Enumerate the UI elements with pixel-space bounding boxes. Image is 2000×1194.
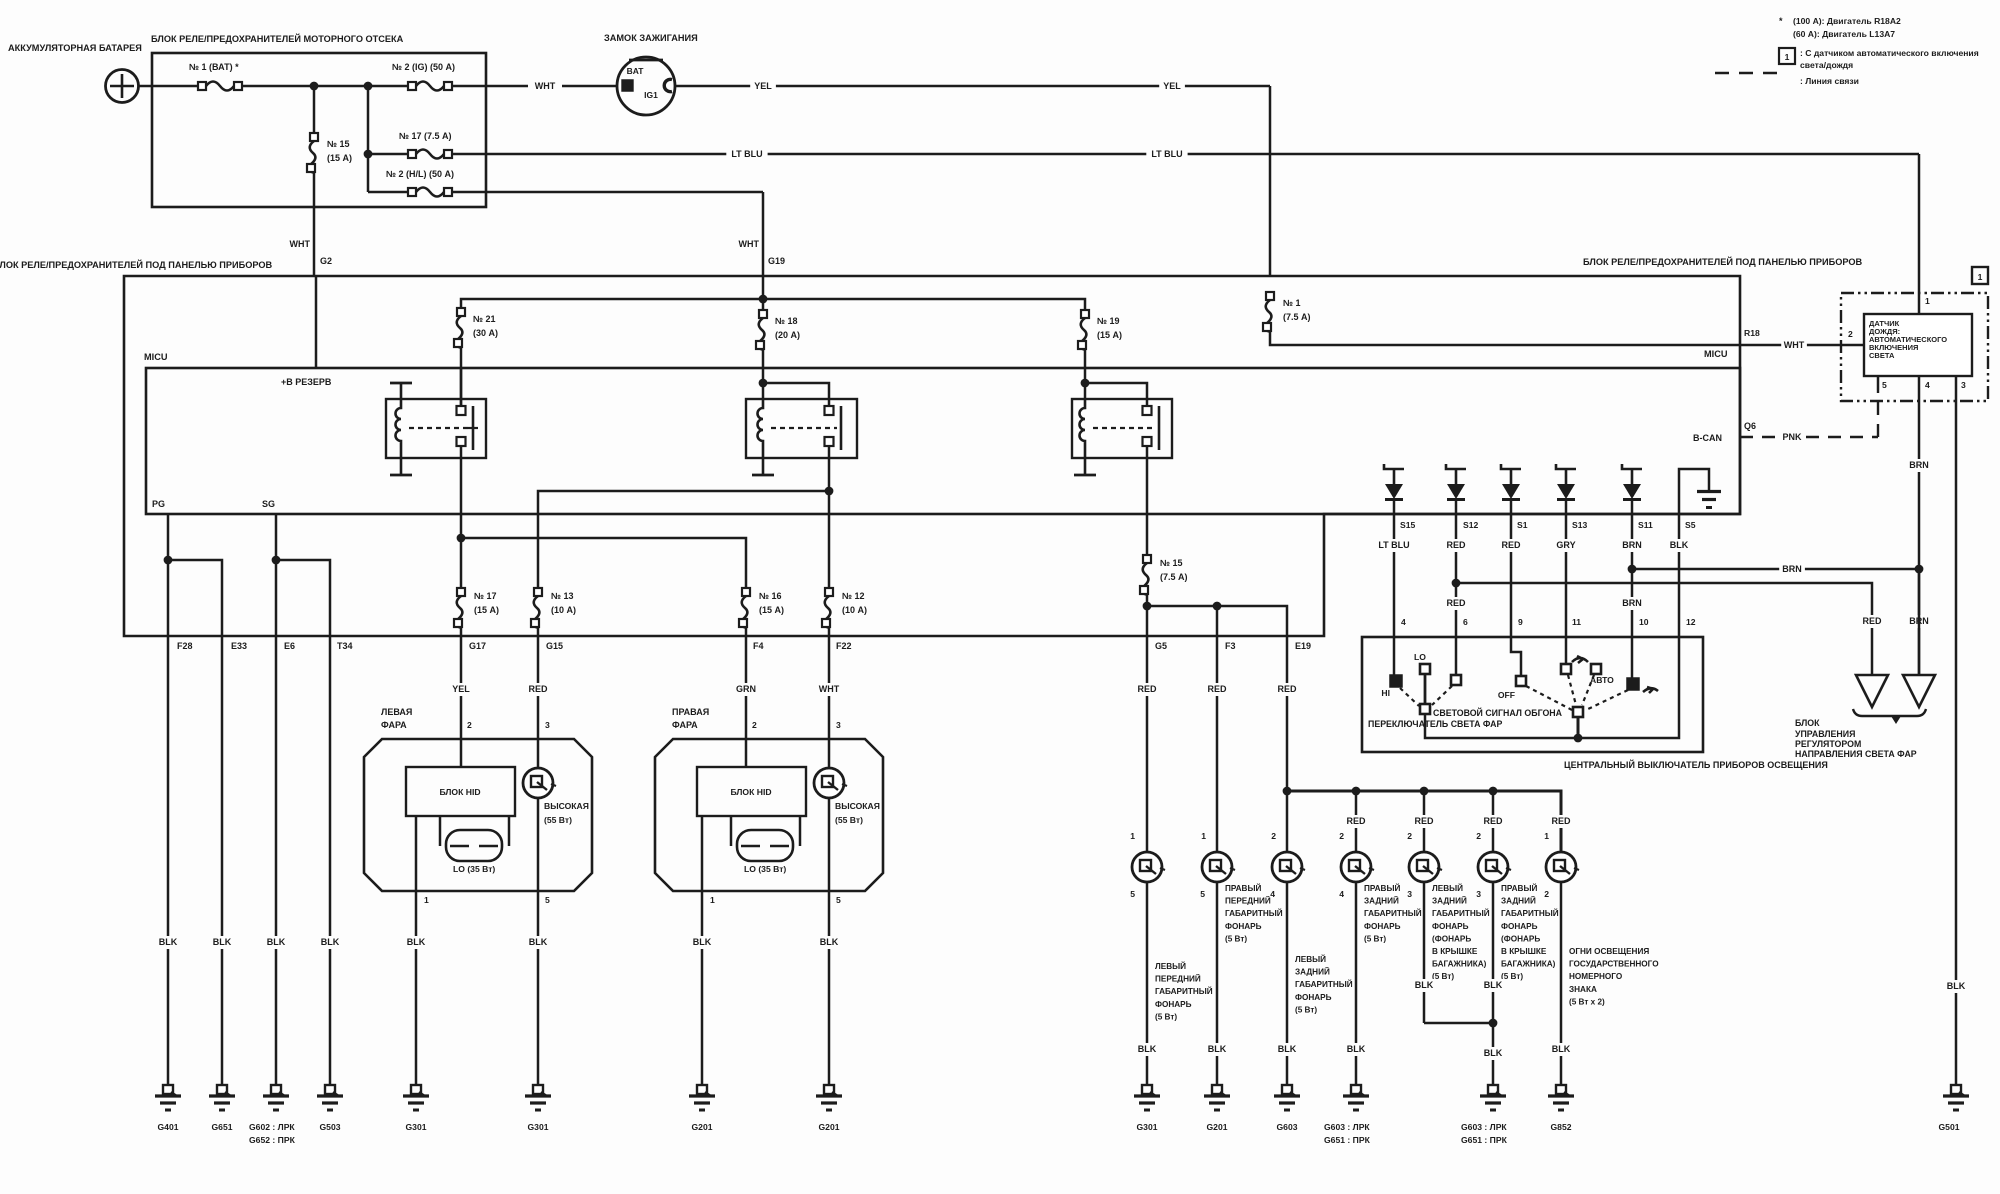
svg-text:1: 1 xyxy=(1785,52,1790,62)
svg-text:G651: G651 xyxy=(211,1122,232,1132)
svg-text:RED: RED xyxy=(1277,684,1297,694)
svg-text:ГАБАРИТНЫЙ: ГАБАРИТНЫЙ xyxy=(1155,985,1213,996)
svg-text:12: 12 xyxy=(1686,617,1696,627)
relay 2 xyxy=(746,399,857,475)
svg-text:E6: E6 xyxy=(284,641,295,651)
left headlight housing xyxy=(364,739,592,891)
svg-text:ГАБАРИТНЫЙ: ГАБАРИТНЫЙ xyxy=(1501,907,1559,918)
left pin1 wire xyxy=(415,816,418,1085)
switch HI contact xyxy=(1393,637,1396,675)
MICU box xyxy=(146,368,1740,514)
engine relay/fuse box xyxy=(152,53,486,207)
svg-text:BRN: BRN xyxy=(1782,564,1802,574)
svg-text:БАГАЖНИКА): БАГАЖНИКА) xyxy=(1501,960,1556,969)
svg-text:ФОНАРЬ: ФОНАРЬ xyxy=(1501,922,1538,931)
svg-text:G852: G852 xyxy=(1550,1122,1571,1132)
svg-text:S13: S13 xyxy=(1572,520,1588,530)
ignition switch xyxy=(617,57,675,115)
svg-text:*: * xyxy=(1779,16,1783,26)
svg-text:(5 Вт): (5 Вт) xyxy=(1432,972,1454,981)
svg-text:WHT: WHT xyxy=(739,239,760,249)
svg-text:(5 Вт): (5 Вт) xyxy=(1295,1005,1317,1014)
wire battery to fuse box xyxy=(139,85,199,88)
svg-text:1: 1 xyxy=(1544,831,1549,841)
svg-text:S1: S1 xyxy=(1517,520,1528,530)
svg-text:БЛОК РЕЛЕ/ПРЕДОХРАНИТЕЛЕЙ МОТО: БЛОК РЕЛЕ/ПРЕДОХРАНИТЕЛЕЙ МОТОРНОГО ОТСЕ… xyxy=(151,33,404,44)
switch pole contact xyxy=(1573,707,1583,717)
rain sensor dash-dot box xyxy=(1841,293,1988,401)
svg-text:(5 Вт): (5 Вт) xyxy=(1364,934,1386,943)
node F3 branch xyxy=(1213,602,1222,611)
svg-text:АККУМУЛЯТОРНАЯ БАТАРЕЯ: АККУМУЛЯТОРНАЯ БАТАРЕЯ xyxy=(8,43,142,53)
svg-text:IG1: IG1 xyxy=(644,90,658,100)
svg-text:ПЕРЕКЛЮЧАТЕЛЬ СВЕТА ФАР: ПЕРЕКЛЮЧАТЕЛЬ СВЕТА ФАР xyxy=(1368,719,1503,729)
svg-text:ПРАВЫЙ: ПРАВЫЙ xyxy=(1501,882,1537,893)
svg-text:ФАРА: ФАРА xyxy=(381,720,407,730)
svg-text:ЛЕВАЯ: ЛЕВАЯ xyxy=(381,707,412,717)
branch to fuse16 xyxy=(461,538,746,588)
svg-text:ЗАДНИЙ: ЗАДНИЙ xyxy=(1295,966,1330,977)
rain sensor box xyxy=(1864,314,1972,376)
svg-text:№ 12: № 12 xyxy=(842,591,865,601)
svg-text:БЛОК РЕЛЕ/ПРЕДОХРАНИТЕЛЕЙ ПОД: БЛОК РЕЛЕ/ПРЕДОХРАНИТЕЛЕЙ ПОД ПАНЕЛЬЮ ПР… xyxy=(0,259,273,270)
svg-text:G603: G603 xyxy=(1276,1122,1297,1132)
svg-text:RED: RED xyxy=(1446,540,1466,550)
under-dash relay/fuse box outline xyxy=(124,276,1740,636)
ground column G602 : ЛРК xyxy=(275,636,278,1085)
svg-text:ЛЕВЫЙ: ЛЕВЫЙ xyxy=(1432,882,1463,893)
wire LT BLU long xyxy=(452,153,1919,156)
svg-text:1: 1 xyxy=(710,895,715,905)
svg-text:G301: G301 xyxy=(405,1122,426,1132)
svg-text:WHT: WHT xyxy=(535,81,556,91)
svg-text:BLK: BLK xyxy=(1552,1044,1571,1054)
svg-text:LO (35 Вт): LO (35 Вт) xyxy=(744,864,786,874)
svg-text:№ 13: № 13 xyxy=(551,591,574,601)
branch T34 xyxy=(276,560,330,636)
svg-text:G301: G301 xyxy=(527,1122,548,1132)
svg-text:(5 Вт х 2): (5 Вт х 2) xyxy=(1569,997,1605,1006)
right low beam feed xyxy=(745,636,748,767)
fuse No19 15A xyxy=(1078,310,1122,350)
bulb at x1356 xyxy=(1341,852,1374,882)
svg-text:G652 : ПРК: G652 : ПРК xyxy=(249,1135,296,1145)
switch LO contact xyxy=(1420,664,1430,674)
bulb at x1493 xyxy=(1478,852,1511,882)
svg-text:(20 А): (20 А) xyxy=(775,330,800,340)
dashed HI to flash xyxy=(1400,688,1419,706)
svg-text:OFF: OFF xyxy=(1498,690,1515,700)
wire S15 column xyxy=(1393,514,1396,637)
svg-text:RED: RED xyxy=(1501,540,1521,550)
fuse No16 15A xyxy=(739,588,784,628)
parking bus xyxy=(1287,791,1561,852)
svg-text:ФОНАРЬ: ФОНАРЬ xyxy=(1225,922,1262,931)
diode S1 xyxy=(1501,464,1521,500)
diode S11 xyxy=(1622,464,1642,500)
svg-text:(15 А): (15 А) xyxy=(759,605,784,615)
svg-text:BLK: BLK xyxy=(1415,980,1434,990)
parking feed columns G5 F3 E19 xyxy=(1146,636,1149,852)
svg-text:2: 2 xyxy=(467,720,472,730)
sensor pin5 stub xyxy=(1877,376,1880,390)
svg-text:S11: S11 xyxy=(1638,520,1653,530)
node relay3 feed xyxy=(1081,379,1090,388)
light switch box xyxy=(1362,637,1703,752)
svg-text:ЗАДНИЙ: ЗАДНИЙ xyxy=(1501,895,1536,906)
switch pin11 contact xyxy=(1565,637,1568,663)
svg-text:(15 А): (15 А) xyxy=(1097,330,1122,340)
svg-text:G301: G301 xyxy=(1136,1122,1157,1132)
svg-text:ФОНАРЬ: ФОНАРЬ xyxy=(1155,1000,1192,1009)
rain sensor boxed 1 xyxy=(1972,267,1988,284)
svg-text:1: 1 xyxy=(1978,272,1983,282)
bulb at x1287 xyxy=(1272,852,1305,882)
svg-text:BLK: BLK xyxy=(1347,1044,1366,1054)
svg-text:MICU: MICU xyxy=(144,352,168,362)
svg-text:(5 Вт): (5 Вт) xyxy=(1225,934,1247,943)
svg-text:RED: RED xyxy=(1137,684,1157,694)
wire S11 column xyxy=(1631,514,1634,637)
svg-text:5: 5 xyxy=(545,895,550,905)
svg-text:5: 5 xyxy=(1130,889,1135,899)
left HID block xyxy=(406,767,515,816)
svg-text:2: 2 xyxy=(1339,831,1344,841)
wire relay2 to fuse12 xyxy=(828,491,831,588)
fuse No18 20A xyxy=(762,299,765,310)
svg-text:G602 : ЛРК: G602 : ЛРК xyxy=(249,1122,295,1132)
svg-text:G401: G401 xyxy=(157,1122,178,1132)
node S12 RED xyxy=(1452,579,1461,588)
fuse No17 15A row2 xyxy=(454,588,499,628)
fuse No2 IG 50A xyxy=(408,82,452,91)
svg-text:(15 А): (15 А) xyxy=(327,153,352,163)
left low beam bulb xyxy=(439,816,442,846)
svg-text:(10 А): (10 А) xyxy=(551,605,576,615)
node B xyxy=(364,82,373,91)
svg-text:RED: RED xyxy=(1551,816,1571,826)
fuse No2 H/L 50A xyxy=(368,191,408,194)
switch pin6 contact xyxy=(1455,637,1458,674)
bulb at x1424 xyxy=(1409,852,1442,882)
svg-text:B-CAN: B-CAN xyxy=(1693,433,1722,443)
svg-text:BLK: BLK xyxy=(321,937,340,947)
svg-text:9: 9 xyxy=(1518,617,1523,627)
svg-text:БЛОК HID: БЛОК HID xyxy=(439,787,480,797)
wire fuse19 down xyxy=(1084,348,1087,383)
svg-text:ЗАДНИЙ: ЗАДНИЙ xyxy=(1432,895,1467,906)
branch to fuse13 xyxy=(538,491,829,588)
svg-text:№ 17: № 17 xyxy=(474,591,497,601)
wire G15 exit xyxy=(537,628,540,636)
node B2 xyxy=(364,150,373,159)
svg-text:YEL: YEL xyxy=(754,81,772,91)
svg-text:RED: RED xyxy=(528,684,548,694)
svg-text:ЛЕВЫЙ: ЛЕВЫЙ xyxy=(1155,960,1186,971)
svg-text:RED: RED xyxy=(1446,598,1466,608)
wire fuse18 down xyxy=(762,350,765,383)
node S11 BRN xyxy=(1628,565,1637,574)
svg-text:2: 2 xyxy=(1476,831,1481,841)
svg-text:ПРАВЫЙ: ПРАВЫЙ xyxy=(1364,882,1400,893)
parking feed branch line xyxy=(1147,606,1287,636)
svg-text:G651 : ПРК: G651 : ПРК xyxy=(1324,1135,1371,1145)
svg-text:№ 21: № 21 xyxy=(473,314,496,324)
svg-text:BLK: BLK xyxy=(1278,1044,1297,1054)
svg-text:WHT: WHT xyxy=(290,239,311,249)
svg-text:3: 3 xyxy=(1961,380,1966,390)
dashed pin11 to pole xyxy=(1568,675,1576,705)
relay 3 xyxy=(1072,399,1172,475)
svg-text:LT BLU: LT BLU xyxy=(1151,149,1182,159)
ground G501 xyxy=(1943,1085,1969,1110)
diode S15 xyxy=(1384,464,1404,500)
fuse No1 BAT xyxy=(198,82,242,91)
wire H/L to G19 xyxy=(452,191,763,194)
svg-text:ВЫСОКАЯ: ВЫСОКАЯ xyxy=(544,801,589,811)
fuse No15 7.5A underdash xyxy=(1140,555,1188,595)
node SG branch xyxy=(272,556,281,565)
svg-text:(15 А): (15 А) xyxy=(474,605,499,615)
svg-text:BLK: BLK xyxy=(267,937,286,947)
wire fuse21 to relay1 xyxy=(460,348,463,407)
relay1 output wire xyxy=(460,446,463,588)
svg-text:ПРАВАЯ: ПРАВАЯ xyxy=(672,707,709,717)
svg-text:РЕГУЛЯТОРОМ: РЕГУЛЯТОРОМ xyxy=(1795,739,1861,749)
svg-text:G201: G201 xyxy=(1206,1122,1227,1132)
svg-text:BLK: BLK xyxy=(407,937,426,947)
svg-text:4: 4 xyxy=(1401,617,1406,627)
svg-text:№ 18: № 18 xyxy=(775,316,798,326)
svg-text:G503: G503 xyxy=(319,1122,340,1132)
wire fuse15 down xyxy=(1146,595,1149,636)
bulb at x1561 xyxy=(1546,852,1579,882)
svg-text:G2: G2 xyxy=(320,256,332,266)
svg-text:PNK: PNK xyxy=(1782,432,1802,442)
svg-text:ПРАВЫЙ: ПРАВЫЙ xyxy=(1225,882,1261,893)
svg-text:1: 1 xyxy=(1201,831,1206,841)
svg-text:ПЕРЕДНИЙ: ПЕРЕДНИЙ xyxy=(1225,895,1271,906)
svg-text:RED: RED xyxy=(1483,816,1503,826)
node A xyxy=(310,82,319,91)
relay 2 contact feed xyxy=(763,383,829,407)
svg-text:BLK: BLK xyxy=(693,937,712,947)
wire S5 column xyxy=(1678,514,1681,637)
leveling connector triangle BRN xyxy=(1918,569,1921,675)
svg-text:G603 : ЛРК: G603 : ЛРК xyxy=(1461,1122,1507,1132)
svg-text:света/дождя: света/дождя xyxy=(1800,60,1853,70)
svg-text:F22: F22 xyxy=(836,641,852,651)
svg-text:4: 4 xyxy=(1339,889,1344,899)
svg-text:ГАБАРИТНЫЙ: ГАБАРИТНЫЙ xyxy=(1225,907,1283,918)
svg-text:№ 17 (7.5 А): № 17 (7.5 А) xyxy=(399,131,452,141)
node PG branch xyxy=(164,556,173,565)
MICU internal ground xyxy=(1679,469,1709,514)
right pin1 wire xyxy=(701,816,704,1085)
svg-text:PG: PG xyxy=(152,499,165,509)
svg-text:(ФОНАРЬ: (ФОНАРЬ xyxy=(1432,934,1471,943)
svg-text:ЗНАКА: ЗНАКА xyxy=(1569,985,1597,994)
svg-text:3: 3 xyxy=(545,720,550,730)
right headlight housing xyxy=(655,739,883,891)
relay 3 coil feed xyxy=(1084,383,1087,399)
svg-text:WHT: WHT xyxy=(1784,340,1805,350)
wire to R18 connector xyxy=(1270,332,1740,345)
svg-text:№ 1 (ВАТ) *: № 1 (ВАТ) * xyxy=(189,62,239,72)
node G19 feed xyxy=(759,295,768,304)
svg-text:G5: G5 xyxy=(1155,641,1167,651)
wire fuse1 to fuse2 xyxy=(242,85,408,88)
svg-text:ЛЕВЫЙ: ЛЕВЫЙ xyxy=(1295,953,1326,964)
wire G2 down xyxy=(313,173,316,276)
switch internal bus xyxy=(1425,637,1679,738)
svg-text:ФОНАРЬ: ФОНАРЬ xyxy=(1364,922,1401,931)
svg-text:F28: F28 xyxy=(177,641,193,651)
svg-text:ГОСУДАРСТВЕННОГО: ГОСУДАРСТВЕННОГО xyxy=(1569,960,1659,969)
sensor pin3 wire down xyxy=(1955,376,1958,1085)
svg-text:BAT: BAT xyxy=(627,66,645,76)
node relay2 out xyxy=(825,487,834,496)
svg-text:В КРЫШКЕ: В КРЫШКЕ xyxy=(1501,947,1547,956)
wire color labels S row xyxy=(1375,539,1412,552)
svg-text:G17: G17 xyxy=(469,641,486,651)
svg-text:БЛОК РЕЛЕ/ПРЕДОХРАНИТЕЛЕЙ ПОД: БЛОК РЕЛЕ/ПРЕДОХРАНИТЕЛЕЙ ПОД ПАНЕЛЬЮ ПР… xyxy=(1583,256,1863,267)
svg-text:E33: E33 xyxy=(231,641,247,651)
svg-text:S15: S15 xyxy=(1400,520,1416,530)
svg-text:ЦЕНТРАЛЬНЫЙ ВЫКЛЮЧАТЕЛЬ ПРИБОР: ЦЕНТРАЛЬНЫЙ ВЫКЛЮЧАТЕЛЬ ПРИБОРОВ ОСВЕЩЕН… xyxy=(1564,759,1828,770)
svg-text:(55 Вт): (55 Вт) xyxy=(835,815,863,825)
svg-text:RED: RED xyxy=(1346,816,1366,826)
svg-text:№ 15: № 15 xyxy=(1160,558,1183,568)
diode S12 xyxy=(1446,464,1466,500)
svg-text:1: 1 xyxy=(424,895,429,905)
svg-text:ФАРА: ФАРА xyxy=(672,720,698,730)
svg-text:SG: SG xyxy=(262,499,275,509)
svg-text:В КРЫШКЕ: В КРЫШКЕ xyxy=(1432,947,1478,956)
svg-text:GRY: GRY xyxy=(1556,540,1575,550)
wire S1 column xyxy=(1510,514,1513,637)
node relay2 feed xyxy=(759,379,768,388)
svg-text:4: 4 xyxy=(1270,889,1275,899)
bus drops xyxy=(1355,791,1358,852)
svg-text:LT BLU: LT BLU xyxy=(731,149,762,159)
wire F4 exit xyxy=(745,628,748,636)
dashed pin10 to pole xyxy=(1586,690,1628,710)
left ground B xyxy=(525,1085,551,1110)
leveling connector triangle RED xyxy=(1856,675,1888,707)
svg-text:F4: F4 xyxy=(753,641,764,651)
wire S12 column xyxy=(1455,514,1458,637)
svg-text:G201: G201 xyxy=(691,1122,712,1132)
svg-text:YEL: YEL xyxy=(1163,81,1181,91)
node switch pole xyxy=(1574,734,1583,743)
svg-text:G501: G501 xyxy=(1938,1122,1959,1132)
svg-text:R18: R18 xyxy=(1744,328,1760,338)
svg-text:БЛОК HID: БЛОК HID xyxy=(730,787,771,797)
dashed OFF to pole xyxy=(1526,686,1572,710)
svg-text:BRN: BRN xyxy=(1622,540,1642,550)
svg-text:YEL: YEL xyxy=(452,684,470,694)
relay 3 contact feed xyxy=(1085,383,1147,407)
svg-text:G15: G15 xyxy=(546,641,563,651)
svg-text:RED: RED xyxy=(1207,684,1227,694)
battery xyxy=(106,70,139,103)
svg-text:LT BLU: LT BLU xyxy=(1378,540,1409,550)
wire G17 exit xyxy=(460,628,463,636)
svg-text:BLK: BLK xyxy=(1484,1048,1503,1058)
svg-text:3: 3 xyxy=(836,720,841,730)
PNK dashed vertical to sensor pin5 xyxy=(1877,390,1879,437)
svg-text:GRN: GRN xyxy=(736,684,756,694)
relay3 output wire xyxy=(1146,446,1149,555)
wire G19 entry xyxy=(762,276,765,299)
wire node B down xyxy=(367,86,370,192)
svg-text:ЗАМОК ЗАЖИГАНИЯ: ЗАМОК ЗАЖИГАНИЯ xyxy=(604,33,698,43)
svg-text:БЛОК: БЛОК xyxy=(1795,718,1820,728)
left low beam feed xyxy=(460,636,463,767)
switch rotary icon 1 xyxy=(1572,656,1588,663)
left pin5 wire xyxy=(537,798,540,1085)
svg-text:4: 4 xyxy=(1925,380,1930,390)
svg-text:BRN: BRN xyxy=(1622,598,1642,608)
svg-text:№ 15: № 15 xyxy=(327,139,350,149)
node fuse15 branch xyxy=(1143,602,1152,611)
svg-text:№ 16: № 16 xyxy=(759,591,782,601)
svg-text:(7.5 А): (7.5 А) xyxy=(1283,312,1311,322)
fuse No12 10A xyxy=(822,588,867,628)
feed line inside box xyxy=(461,299,1085,310)
svg-text:НАПРАВЛЕНИЯ СВЕТА ФАР: НАПРАВЛЕНИЯ СВЕТА ФАР xyxy=(1795,749,1917,759)
fuse No15 15A xyxy=(313,86,316,133)
right ground A xyxy=(689,1085,715,1110)
legend dash sample xyxy=(1715,72,1787,75)
wire YEL down xyxy=(1269,86,1272,276)
svg-text:BLK: BLK xyxy=(213,937,232,947)
svg-text:BLK: BLK xyxy=(1138,1044,1157,1054)
svg-text:ПЕРЕДНИЙ: ПЕРЕДНИЙ xyxy=(1155,973,1201,984)
svg-text:ФОНАРЬ: ФОНАРЬ xyxy=(1295,993,1332,1002)
ground column G401 xyxy=(167,636,170,1085)
wire F22 exit xyxy=(828,628,831,636)
ground column G651 xyxy=(221,636,224,1085)
switch AUTO contact xyxy=(1591,664,1601,674)
svg-text:MICU: MICU xyxy=(1704,349,1728,359)
svg-text:: Линия связи: : Линия связи xyxy=(1800,76,1859,86)
svg-text:LO: LO xyxy=(1414,652,1426,662)
svg-text:BLK: BLK xyxy=(1947,981,1966,991)
svg-text:2: 2 xyxy=(1848,329,1853,339)
svg-text:2: 2 xyxy=(1544,889,1549,899)
svg-text:BLK: BLK xyxy=(529,937,548,947)
svg-text:BLK: BLK xyxy=(1484,980,1503,990)
svg-text:ГАБАРИТНЫЙ: ГАБАРИТНЫЙ xyxy=(1364,907,1422,918)
switch OFF contact xyxy=(1511,637,1521,675)
svg-text:ВЫСОКАЯ: ВЫСОКАЯ xyxy=(835,801,880,811)
svg-text:5: 5 xyxy=(1882,380,1887,390)
svg-text:(55 Вт): (55 Вт) xyxy=(544,815,572,825)
svg-text:ЗАДНИЙ: ЗАДНИЙ xyxy=(1364,895,1399,906)
svg-text:10: 10 xyxy=(1639,617,1649,627)
right pin5 wire xyxy=(828,798,831,1085)
fuse No17 7.5A xyxy=(368,153,408,156)
dashed pin6 to flash xyxy=(1432,686,1452,705)
svg-text:СВЕТОВОЙ СИГНАЛ ОБГОНА: СВЕТОВОЙ СИГНАЛ ОБГОНА xyxy=(1433,707,1563,718)
svg-text:LO (35 Вт): LO (35 Вт) xyxy=(453,864,495,874)
svg-text:СВЕТА: СВЕТА xyxy=(1869,351,1895,360)
relay2 output wire xyxy=(828,446,831,491)
svg-text:ФОНАРЬ: ФОНАРЬ xyxy=(1432,922,1469,931)
sensor pin4 wire down xyxy=(1918,376,1921,675)
